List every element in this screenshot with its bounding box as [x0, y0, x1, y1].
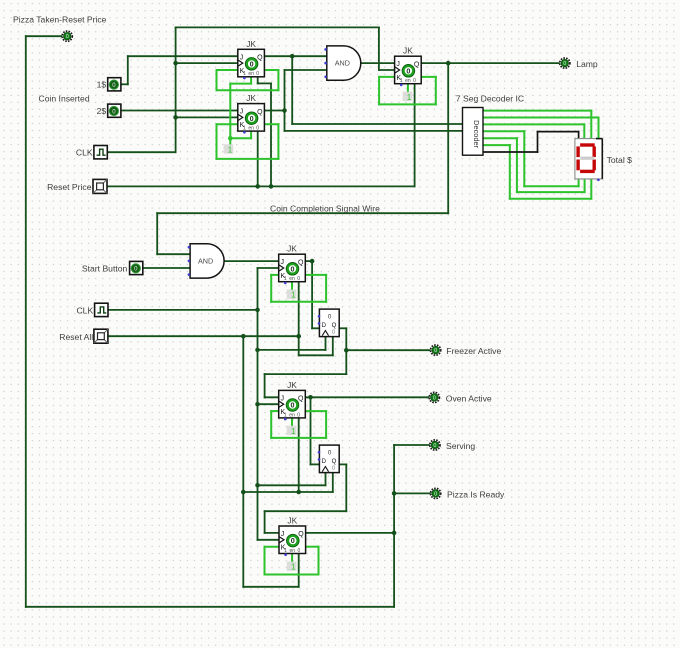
JK4 loop left v [270, 275, 272, 302]
wire CLK2 pin horizontal [108, 309, 258, 311]
wire clock top down vertical [378, 27, 380, 70]
JK4 unconnected preset pin [284, 282, 287, 285]
and-gate AND1 [327, 46, 361, 80]
svg-text:1: 1 [243, 71, 246, 77]
AND1 unused input 1 [324, 48, 327, 51]
wire DFF2 clock horizontal [258, 484, 326, 486]
wire to Freezer pin [346, 349, 430, 351]
wire JK2 Q stub [264, 110, 284, 112]
wire AND2 output to JK4 J [224, 260, 279, 262]
wire JK2 clock stub [176, 116, 238, 118]
svg-text:0: 0 [413, 78, 416, 84]
junction JK6 Q node [392, 531, 397, 536]
wire DFF1 clock horizontal [258, 349, 326, 351]
JK3 unconnected preset pin [400, 84, 403, 87]
input pin 1$ [108, 78, 121, 91]
decoder out g h1 [483, 151, 538, 153]
clock CLK1 [94, 146, 107, 159]
wire coin-completion vertical left [156, 213, 158, 254]
svg-text:J: J [281, 531, 285, 538]
svg-text:0: 0 [291, 536, 295, 545]
output pin Oven Active [429, 392, 439, 402]
DFF2 unconnected pin a [318, 451, 321, 454]
JK5 loop bottom [271, 437, 326, 439]
wire bottom horizontal [26, 606, 394, 608]
wire DFF1 reset vertical [332, 337, 334, 356]
clock CLK2 [95, 303, 108, 316]
AND2 unused input 2 [188, 260, 191, 263]
decoder out b h [483, 117, 599, 119]
wire 1$ stub [121, 83, 128, 85]
svg-text:CLK: CLK [76, 148, 93, 158]
shared constant vertical [229, 84, 231, 145]
JK6 unconnected preset pin [284, 553, 287, 556]
svg-text:Freezer Active: Freezer Active [446, 346, 501, 356]
constant 1 C6 [287, 562, 297, 572]
output pin Freezer Active [431, 345, 441, 355]
JK4 loop K stub [271, 274, 279, 276]
svg-text:Reset Price: Reset Price [47, 182, 92, 192]
junction JK1 Q node [290, 54, 295, 59]
input pin Start Button [130, 261, 143, 274]
svg-text:Q: Q [332, 322, 337, 329]
7-segment display DS1 [575, 139, 602, 179]
flip-flop JK6 [279, 516, 306, 554]
decoder out a h [483, 110, 591, 112]
JK2 loop bottom [217, 158, 279, 160]
svg-text:0: 0 [433, 443, 436, 449]
wire to Pizza-Is-Ready pin [394, 492, 430, 494]
wire coin completion signal horizontal [157, 212, 448, 214]
svg-text:1: 1 [243, 126, 246, 132]
svg-text:CLK: CLK [76, 305, 93, 315]
AND2 unused input 3 [188, 273, 191, 276]
wire 1$ to JK1 J [128, 55, 238, 57]
wire clock top horizontal [176, 26, 379, 28]
wire JK4-to-DFF1 vertical [311, 261, 313, 328]
wire JK1 clock stub [176, 62, 238, 64]
svg-text:JK: JK [287, 380, 297, 390]
svg-text:1$: 1$ [97, 80, 107, 90]
junction reset-price JK1 [269, 184, 274, 189]
wire JK4 clock stub [258, 267, 279, 269]
svg-text:0: 0 [250, 60, 254, 69]
wire pizza-taken horizontal [26, 35, 62, 37]
JK5 loop right v [325, 411, 327, 438]
svg-text:0: 0 [328, 449, 332, 456]
svg-text:0: 0 [434, 491, 437, 497]
wire decoder input1 horizontal [292, 123, 462, 125]
svg-text:Coin Inserted: Coin Inserted [39, 94, 90, 104]
wire AND1 output to JK3 J [360, 62, 394, 64]
svg-text:AND: AND [198, 257, 213, 266]
wire decoder input2 horizontal [285, 130, 463, 132]
svg-text:en: en [248, 71, 254, 77]
wire Start Button to AND2 [143, 267, 191, 269]
svg-text:JK: JK [246, 93, 256, 103]
svg-text:7 Seg Decoder IC: 7 Seg Decoder IC [456, 94, 524, 104]
svg-text:J: J [281, 259, 285, 266]
wire DFF1 reset horizontal [299, 354, 333, 356]
junction JK5 Q node [308, 395, 313, 400]
decoder out f h1 [483, 144, 510, 146]
display unconnected pin [597, 179, 600, 182]
decoder out f h2 [510, 198, 592, 200]
wire JK1 clear jog h [258, 82, 271, 84]
JK1 loop Qbar stub [264, 69, 278, 71]
svg-text:Q: Q [332, 458, 337, 465]
wire DFF2 Q stub [339, 463, 346, 465]
junction reset rail mid [241, 490, 246, 495]
svg-text:JK: JK [287, 244, 297, 254]
JK5 loop Qbar stub [305, 410, 326, 412]
DFF2 unconnected pin b [318, 458, 321, 461]
input pin 2$ [108, 104, 121, 117]
svg-text:Q: Q [257, 109, 263, 116]
junction shared constant [228, 136, 233, 141]
junction JK4 clear node [296, 334, 301, 339]
wire JK6 clock stub [258, 539, 279, 541]
wire Reset Price horizontal [107, 185, 415, 187]
JK2 unconnected preset pin [243, 131, 246, 134]
flip-flop JK2 [238, 93, 265, 131]
svg-text:2$: 2$ [97, 106, 107, 116]
JK3 loop bottom [379, 103, 436, 105]
svg-text:J: J [281, 395, 285, 402]
JK3 loop left v [378, 77, 380, 105]
wire JK5 clock stub [258, 403, 279, 405]
wire JK5 J feed vertical [264, 374, 266, 397]
wire DFF1 D input stub [312, 327, 319, 329]
wire JK2 clear vertical [257, 131, 259, 186]
decoder out c v [583, 124, 585, 138]
wire JK5-to-DFF2 vertical [310, 397, 312, 464]
svg-text:1: 1 [284, 548, 287, 554]
wire JK1 clear stub v [257, 77, 259, 84]
svg-text:1: 1 [228, 146, 233, 155]
JK5 unconnected preset pin [284, 418, 287, 421]
output pin Pizza Taken-Reset Price [62, 31, 72, 41]
decoder out d h1 [483, 130, 524, 132]
JK6 enable v [291, 554, 293, 562]
svg-text:Total $: Total $ [607, 155, 633, 165]
svg-text:Q: Q [298, 259, 304, 266]
svg-text:1: 1 [284, 276, 287, 282]
JK3 loop K stub [379, 76, 395, 78]
svg-text:en: en [289, 276, 295, 282]
JK2 loop left v [216, 124, 218, 159]
svg-text:1: 1 [407, 93, 412, 102]
wire JK2-Q-to-AND1 vertical [284, 70, 286, 111]
JK5 loop K stub [271, 410, 279, 412]
wire JK3 clock stub [379, 69, 395, 71]
svg-text:Q: Q [414, 61, 420, 68]
wire DFF1 Q stub [339, 327, 346, 329]
flip-flop JK4 [279, 244, 306, 282]
JK4 loop bottom [271, 301, 326, 303]
JK1 loop bottom [217, 89, 279, 91]
wire DFF2 Q vertical [345, 464, 347, 511]
svg-text:Lamp: Lamp [576, 59, 598, 69]
junction freezer node [344, 348, 349, 353]
wire JK2-Q-to-AND1 horizontal [285, 69, 327, 71]
wire reset rail vertical [242, 336, 244, 587]
svg-text:JK: JK [403, 46, 413, 56]
flip-flop DFF1 [319, 309, 339, 337]
wire DFF1-to-JK5 horizontal [265, 373, 347, 375]
JK2 enable h [230, 137, 251, 139]
junction lamp node [446, 61, 451, 66]
wire coin-completion to AND2 [157, 253, 190, 255]
junction reset-price JK2 [255, 184, 260, 189]
decoder out a v [590, 111, 592, 139]
svg-text:Q: Q [257, 55, 263, 62]
svg-text:1: 1 [291, 427, 296, 436]
svg-text:0: 0 [328, 313, 332, 320]
wire left rail vertical [25, 36, 27, 607]
junction JK4 Q node [310, 259, 315, 264]
svg-text:Decoder: Decoder [472, 120, 481, 148]
JK4 enable v [291, 282, 293, 290]
svg-text:Q: Q [298, 531, 304, 538]
wire CLK1 rail vertical [175, 27, 177, 152]
svg-text:Reset All: Reset All [59, 332, 93, 342]
wire reset rail branch2 [243, 491, 332, 493]
svg-text:0: 0 [256, 126, 259, 132]
decoder out g v2 [578, 132, 580, 139]
JK4 loop right v [325, 275, 327, 302]
svg-text:J: J [240, 109, 244, 116]
wire reset rail branch3 [243, 586, 298, 588]
DFF1 unconnected pin a [318, 315, 321, 318]
wire JK1 Q to AND1 [264, 55, 326, 57]
junction pizza-ready node [392, 491, 397, 496]
decoder out g h2 [538, 131, 579, 133]
svg-text:0: 0 [256, 71, 259, 77]
svg-text:1: 1 [291, 563, 296, 572]
svg-text:JK: JK [246, 39, 256, 49]
wire DFF2 reset vertical [332, 473, 334, 492]
junction reset rail top [241, 334, 246, 339]
wire DFF2 clock vertical [325, 473, 327, 486]
svg-text:Pizza Taken-Reset Price: Pizza Taken-Reset Price [13, 15, 107, 25]
constant 1 C4 [287, 290, 297, 300]
JK1 loop K stub [217, 69, 238, 71]
wire JK6 clear vertical [298, 554, 300, 587]
output pin Pizza Is Ready [431, 488, 441, 498]
svg-text:0: 0 [434, 348, 437, 354]
junction JK2 Q node [282, 108, 287, 113]
JK1 loop left v [216, 70, 218, 90]
svg-text:0: 0 [297, 412, 300, 418]
svg-text:en: en [290, 548, 296, 554]
wire JK6 J feed horizontal [265, 532, 279, 534]
JK6 loop left v [264, 547, 266, 575]
svg-text:en: en [405, 78, 411, 84]
junction DFF1 clock rail [255, 348, 260, 353]
JK6 loop K stub [265, 546, 280, 548]
JK2 enable v [250, 131, 252, 138]
JK3 enable v [407, 84, 409, 92]
wire JK1 clear vertical [270, 83, 272, 186]
constant 1 C3 [403, 92, 413, 102]
push button Reset Price [93, 179, 107, 193]
decoder out d v2 [578, 179, 580, 186]
wire JK3 Q to Lamp [421, 62, 559, 64]
wire JK6 Q output [306, 532, 395, 534]
wire DFF1 Q vertical [345, 328, 347, 374]
wire to Serving pin [394, 444, 430, 446]
JK1 loop right v [277, 70, 279, 90]
output pin Serving [430, 440, 440, 450]
constant 1 C2 [224, 144, 234, 154]
wire DFF1 clock vertical [325, 337, 327, 350]
7-segment decoder U1 [463, 108, 484, 156]
decoder out f v2 [590, 179, 592, 199]
constant 1 C5 [287, 426, 297, 436]
svg-text:0: 0 [291, 401, 295, 410]
wire DFF2 D input stub [311, 463, 320, 465]
svg-text:0: 0 [297, 276, 300, 282]
DFF1 unconnected pin b [318, 322, 321, 325]
svg-text:J: J [396, 61, 400, 68]
svg-text:0: 0 [298, 548, 301, 554]
JK5 loop left v [270, 411, 272, 438]
JK6 loop right v [318, 547, 320, 575]
JK5 enable v [291, 418, 293, 426]
push button Reset All [94, 329, 108, 343]
wire JK5 clear vertical [298, 418, 300, 492]
svg-text:D: D [322, 322, 327, 329]
wire JK3 clear vertical [414, 84, 416, 187]
JK6 loop bottom [265, 574, 319, 576]
wire CLK2 rail vertical [257, 268, 259, 540]
decoder out g v1 [537, 132, 539, 152]
JK6 loop Qbar stub [306, 546, 319, 548]
junction clk JK2 [173, 115, 178, 120]
svg-text:1: 1 [400, 78, 403, 84]
svg-text:1: 1 [284, 412, 287, 418]
svg-text:Start Button: Start Button [82, 264, 128, 274]
svg-text:en: en [289, 412, 295, 418]
svg-text:Oven Active: Oven Active [446, 394, 492, 404]
svg-text:Serving: Serving [446, 441, 475, 451]
JK2 loop right v [277, 124, 279, 159]
decoder out d h2 [524, 185, 578, 187]
svg-text:0: 0 [250, 114, 254, 123]
wire serving node vertical [393, 445, 395, 607]
flip-flop JK5 [279, 380, 306, 418]
wire lamp node vertical [447, 63, 449, 213]
wire 2$ to JK2 J [121, 110, 238, 112]
svg-text:Coin Completion Signal Wire: Coin Completion Signal Wire [270, 203, 380, 213]
wire decoder input2 vertical [284, 111, 286, 131]
JK2 loop Qbar stub [264, 123, 278, 125]
wire Reset All horizontal [108, 335, 299, 337]
svg-text:1: 1 [291, 291, 296, 300]
svg-text:Pizza Is Ready: Pizza Is Ready [447, 489, 505, 499]
svg-text:AND: AND [335, 59, 350, 68]
and-gate AND2 [190, 244, 224, 278]
wire JK6 J feed vertical [264, 511, 266, 533]
wire 1$ vertical [127, 56, 129, 84]
junction JK5 clock rail [255, 402, 260, 407]
decoder out e v2 [584, 179, 586, 192]
JK1 enable v [250, 77, 252, 84]
junction JK5 clear node [296, 490, 301, 495]
wire JK4 Q stub [305, 260, 312, 262]
wire decoder input1 vertical [291, 56, 293, 124]
flip-flop JK3 [395, 46, 422, 84]
svg-text:0: 0 [66, 34, 69, 40]
decoder out e v1 [516, 138, 518, 192]
svg-text:0: 0 [563, 61, 566, 67]
decoder out c h [483, 123, 584, 125]
flip-flop DFF2 [319, 445, 339, 473]
decoder out e h2 [517, 191, 585, 193]
svg-text:0: 0 [291, 264, 295, 273]
wire JK4 clear vertical [298, 282, 300, 356]
wire JK5 J feed horizontal [265, 396, 279, 398]
JK1 unconnected preset pin [243, 77, 246, 80]
svg-text:Q: Q [298, 396, 304, 403]
AND1 unused input 3 [324, 76, 327, 79]
flip-flop JK1 [238, 39, 265, 77]
junction CLK2 rail top [255, 308, 260, 313]
AND1 unused input 2 [324, 62, 327, 65]
wire CLK1 pin stub [107, 151, 175, 153]
output pin Lamp [560, 58, 570, 68]
junction DFF2 clock rail [255, 483, 260, 488]
svg-text:JK: JK [287, 516, 297, 526]
decoder out e h1 [483, 137, 517, 139]
decoder out b v [598, 118, 600, 139]
wire DFF2-to-JK6 horizontal [265, 510, 347, 512]
svg-text:en: en [248, 126, 254, 132]
svg-text:0: 0 [433, 395, 436, 401]
svg-text:0: 0 [406, 66, 410, 75]
svg-text:D: D [322, 458, 327, 465]
JK1 enable h [230, 83, 251, 85]
AND2 unused input 1 [188, 246, 191, 249]
junction clk JK1 [173, 61, 178, 66]
JK2 loop K stub [217, 123, 238, 125]
JK3 loop Qbar stub [421, 76, 436, 78]
wire JK5 Q to Oven pin [305, 396, 429, 398]
JK3 loop right v [435, 77, 437, 105]
decoder out d v1 [523, 131, 525, 186]
svg-text:J: J [240, 54, 244, 61]
JK4 loop Qbar stub [305, 274, 326, 276]
decoder out f v1 [509, 145, 511, 199]
